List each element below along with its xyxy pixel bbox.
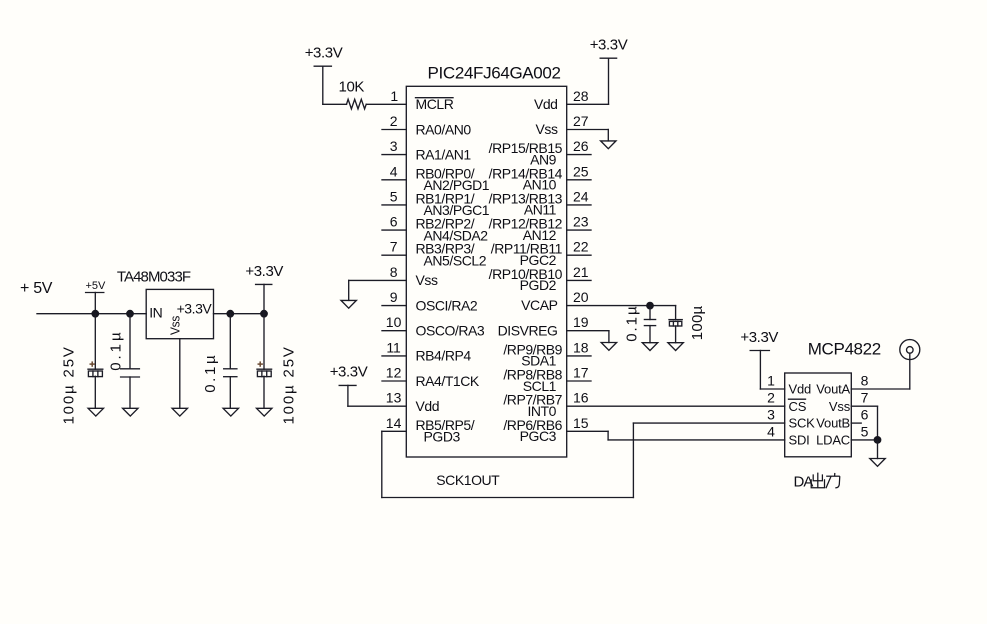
svg-text:8: 8 bbox=[861, 373, 869, 389]
value label C6 100u bbox=[689, 305, 706, 340]
svg-text:4: 4 bbox=[767, 423, 775, 439]
svg-text:RA1/AN1: RA1/AN1 bbox=[416, 146, 472, 162]
svg-text:5: 5 bbox=[390, 188, 398, 204]
wire U2 pin 27 Vss to ground bbox=[567, 130, 609, 141]
junction 5V rail / C2 bbox=[126, 310, 134, 318]
power symbol +3.3V at U2 pin 28 bbox=[590, 37, 628, 59]
value label C4 100u 25V bbox=[280, 347, 297, 424]
svg-text:TA48M033F: TA48M033F bbox=[117, 269, 191, 286]
ground C4 bbox=[257, 408, 272, 416]
svg-text:6: 6 bbox=[390, 214, 398, 230]
svg-text:4: 4 bbox=[390, 163, 398, 179]
label U2 PIC24FJ64GA002 bbox=[428, 64, 561, 83]
svg-text:18: 18 bbox=[573, 339, 589, 355]
capacitor C2 0.1u bbox=[121, 369, 140, 377]
wire U2 pin 20 VCAP bbox=[567, 305, 676, 307]
pin 13 U2 Vdd bbox=[386, 390, 439, 414]
wire U3 pin 7 Vss to pin 5 bbox=[851, 406, 877, 440]
svg-text:28: 28 bbox=[573, 88, 589, 104]
wire C2 bottom bbox=[129, 377, 131, 408]
pin 22 U2 /RP11/RB11 bbox=[491, 239, 591, 268]
wire U2 pin 13 Vdd to +3.3V bbox=[348, 385, 406, 406]
wire C6 bottom bbox=[675, 326, 677, 343]
ground U3 bbox=[870, 459, 885, 467]
pin 1 U3 Vdd bbox=[767, 373, 811, 397]
wire C5 bottom bbox=[649, 326, 651, 343]
svg-text:Vdd: Vdd bbox=[789, 382, 812, 397]
junction output rail / C4 bbox=[260, 310, 268, 318]
pin 8 U2 Vss bbox=[390, 264, 438, 288]
value label C2 0.1u bbox=[107, 332, 124, 371]
svg-text:LDAC: LDAC bbox=[816, 433, 850, 448]
svg-text:SCK: SCK bbox=[789, 416, 816, 431]
svg-text:+3.3V: +3.3V bbox=[740, 329, 778, 346]
svg-text:100µ 25V: 100µ 25V bbox=[280, 347, 297, 424]
svg-text:17: 17 bbox=[573, 365, 589, 381]
svg-text:5: 5 bbox=[861, 423, 869, 439]
pin 12 U2 RA4/T1CK bbox=[382, 365, 480, 389]
wire U2 pin 28 Vdd to +3.3V bbox=[567, 58, 609, 104]
power symbol +3.3V at R1 bbox=[305, 45, 343, 105]
pin 16 U2 /RP7/RB7 bbox=[503, 390, 588, 419]
svg-text:+3.3V: +3.3V bbox=[245, 263, 283, 280]
svg-text:100µ 25V: 100µ 25V bbox=[61, 347, 78, 424]
svg-text:7: 7 bbox=[861, 390, 869, 406]
svg-text:Vss: Vss bbox=[829, 399, 851, 414]
svg-text:11: 11 bbox=[386, 339, 401, 355]
svg-text:DISVREG: DISVREG bbox=[498, 322, 558, 338]
pin 24 U2 /RP13/RB13 bbox=[489, 188, 591, 217]
svg-text:21: 21 bbox=[573, 264, 589, 280]
wire U2 pin 15 to U3 pin 4 SDI net bbox=[567, 431, 785, 440]
wire U2 pin 14 SCK1OUT net bbox=[382, 423, 785, 497]
svg-text:OSCO/RA3: OSCO/RA3 bbox=[416, 323, 485, 339]
power symbol +3.3V at U3 pin 1 bbox=[740, 329, 778, 350]
wire U2 pin 8 Vss to ground bbox=[349, 280, 407, 300]
net label + 5V bbox=[20, 280, 53, 297]
svg-text:+3.3V: +3.3V bbox=[330, 363, 368, 380]
svg-text:VoutA: VoutA bbox=[816, 382, 850, 397]
svg-text:OSCI/RA2: OSCI/RA2 bbox=[416, 297, 478, 313]
svg-text:7: 7 bbox=[390, 239, 398, 255]
wire R1 left bbox=[323, 103, 347, 105]
svg-text:13: 13 bbox=[386, 390, 402, 406]
svg-text:12: 12 bbox=[386, 365, 402, 381]
svg-text:VoutB: VoutB bbox=[816, 416, 850, 431]
IC U2 PIC24FJ64GA002 body bbox=[406, 86, 566, 457]
svg-text:0.1µ: 0.1µ bbox=[107, 332, 124, 371]
resistor R1 10K bbox=[347, 99, 367, 109]
ground U2 pin 19 bbox=[601, 343, 616, 351]
ground C5 bbox=[642, 343, 657, 351]
svg-text:PGD3: PGD3 bbox=[424, 429, 461, 445]
svg-text:0.1µ: 0.1µ bbox=[623, 306, 640, 342]
power symbol +3.3V at U2 pin 13 bbox=[330, 363, 368, 385]
wire U3 ground stem bbox=[877, 440, 879, 459]
svg-text:PGD2: PGD2 bbox=[520, 277, 557, 293]
svg-text:IN: IN bbox=[149, 305, 162, 321]
svg-text:CS: CS bbox=[789, 399, 807, 414]
svg-text:RB4/RP4: RB4/RP4 bbox=[416, 348, 472, 364]
power symbol +3.3V at regulator output bbox=[245, 263, 283, 314]
label U1 TA48M033F bbox=[117, 269, 191, 286]
pin 7 U2 RB3/RP3/ bbox=[382, 239, 487, 269]
wire C1 bottom bbox=[94, 376, 96, 408]
pin label U1 +3.3V output bbox=[177, 301, 213, 317]
svg-text:1: 1 bbox=[767, 373, 775, 389]
svg-text:22: 22 bbox=[573, 239, 589, 255]
svg-text:DA: DA bbox=[794, 474, 814, 491]
svg-text:+ 5V: + 5V bbox=[20, 280, 53, 297]
pin 25 U2 /RP14/RB14 bbox=[489, 163, 591, 192]
value label C1 100u 25V bbox=[61, 347, 78, 424]
wire U3 pin 1 Vdd to +3.3V bbox=[760, 351, 784, 390]
pin 21 U2 /RP10/RB10 bbox=[489, 264, 591, 293]
ground U1 Vss bbox=[172, 408, 187, 416]
pin label U1 IN bbox=[149, 305, 162, 321]
pin 4 U3 SDI bbox=[767, 423, 809, 447]
wire C4 top bbox=[263, 314, 265, 370]
ground C6 bbox=[668, 343, 683, 351]
pin 6 U3 VoutB bbox=[816, 407, 868, 431]
svg-text:8: 8 bbox=[390, 264, 398, 280]
wire C4 bottom bbox=[263, 376, 265, 408]
wire 5V input rail bbox=[37, 313, 146, 315]
svg-text:VCAP: VCAP bbox=[521, 297, 557, 313]
svg-text:14: 14 bbox=[386, 415, 402, 431]
svg-text:+3.3V: +3.3V bbox=[590, 37, 628, 54]
pin 2 U2 RA0/AN0 bbox=[382, 113, 471, 137]
regulator U1 TA48M033F bbox=[146, 289, 213, 338]
svg-text:Vss: Vss bbox=[536, 121, 558, 137]
capacitor C3 0.1u bbox=[224, 369, 237, 377]
svg-text:16: 16 bbox=[573, 390, 589, 406]
net label SCK1OUT bbox=[436, 472, 500, 488]
capacitor C5 0.1u bbox=[644, 320, 655, 326]
junction 5V rail / C1 bbox=[91, 310, 99, 318]
pin 1 U2 MCLR bbox=[390, 88, 453, 112]
svg-text:24: 24 bbox=[573, 188, 589, 204]
pin 27 U2 Vss bbox=[536, 113, 589, 137]
wire C2 top bbox=[129, 314, 131, 369]
svg-text:SCK1OUT: SCK1OUT bbox=[436, 472, 500, 488]
svg-text:3: 3 bbox=[390, 138, 398, 154]
capacitor C4 100u 25V electrolytic bbox=[257, 361, 272, 376]
pin 4 U2 RB0/RP0/ bbox=[382, 163, 490, 193]
pin 3 U2 RA1/AN1 bbox=[382, 138, 471, 162]
junction VCAP / C5 bbox=[646, 302, 654, 310]
wire U3 pin 5 LDAC bbox=[851, 439, 877, 441]
ground U2 pin 8 bbox=[341, 300, 356, 308]
wire U3 pin 8 VoutA to connector bbox=[851, 353, 910, 389]
svg-text:100µ: 100µ bbox=[689, 305, 706, 340]
svg-text:MCLR: MCLR bbox=[416, 96, 454, 112]
connector J1 output jack bbox=[900, 340, 920, 360]
svg-text:10K: 10K bbox=[339, 79, 365, 96]
value label R1 10K bbox=[339, 79, 365, 96]
svg-text:+3.3V: +3.3V bbox=[305, 45, 343, 62]
svg-text:27: 27 bbox=[573, 113, 589, 129]
wire 3.3V output rail bbox=[214, 313, 265, 315]
wire C5 top bbox=[649, 306, 651, 320]
net label DA output (DA出力) bbox=[794, 473, 840, 491]
svg-text:2: 2 bbox=[390, 113, 398, 129]
pin 10 U2 OSCO/RA3 bbox=[382, 314, 485, 338]
svg-text:SDI: SDI bbox=[789, 433, 810, 448]
svg-text:PGC3: PGC3 bbox=[520, 428, 557, 444]
IC U3 MCP4822 body bbox=[785, 373, 852, 457]
pin 20 U2 VCAP bbox=[521, 289, 589, 313]
wire C3 bottom bbox=[229, 377, 231, 409]
pin 2 U3 CS bbox=[767, 390, 807, 414]
pin 28 U2 Vdd bbox=[534, 88, 589, 112]
wire R1 to pin 1 bbox=[366, 103, 406, 105]
wire U2 pin 16 to U3 pin 2 CS net bbox=[567, 405, 785, 407]
wire U1 Vss to ground bbox=[179, 339, 181, 409]
wire C6 top bbox=[675, 306, 677, 320]
pin 18 U2 /RP9/RB9 bbox=[503, 339, 591, 368]
pin 17 U2 /RP8/RB8 bbox=[503, 365, 591, 394]
svg-text:+5V: +5V bbox=[86, 280, 107, 292]
svg-text:AN5/SCL2: AN5/SCL2 bbox=[424, 253, 487, 269]
svg-text:+3.3V: +3.3V bbox=[177, 301, 213, 317]
pin 11 U2 RB4/RP4 bbox=[382, 339, 471, 363]
wire C1 top bbox=[94, 314, 96, 370]
svg-text:3: 3 bbox=[767, 407, 775, 423]
svg-text:Vss: Vss bbox=[167, 315, 182, 335]
pin 5 U3 LDAC bbox=[816, 423, 868, 447]
value label C3 0.1u bbox=[202, 355, 219, 393]
capacitor C1 100u 25V electrolytic bbox=[88, 361, 103, 376]
svg-text:2: 2 bbox=[767, 390, 775, 406]
pin 26 U2 /RP15/RB15 bbox=[489, 138, 591, 167]
power symbol +5V bbox=[86, 280, 107, 314]
ground C1 bbox=[88, 408, 103, 416]
svg-text:PIC24FJ64GA002: PIC24FJ64GA002 bbox=[428, 64, 561, 83]
svg-text:Vdd: Vdd bbox=[534, 96, 558, 112]
ground C3 bbox=[223, 408, 238, 416]
svg-text:Vss: Vss bbox=[416, 272, 438, 288]
pin 14 U2 RB5/RP5/ bbox=[386, 415, 475, 445]
pin 8 U3 VoutA bbox=[816, 373, 868, 397]
svg-text:15: 15 bbox=[573, 415, 589, 431]
junction U3 Vss/LDAC bbox=[874, 436, 882, 444]
svg-text:23: 23 bbox=[573, 214, 589, 230]
svg-text:0.1µ: 0.1µ bbox=[202, 355, 219, 393]
svg-text:MCP4822: MCP4822 bbox=[808, 339, 881, 358]
pin 9 U2 OSCI/RA2 bbox=[382, 289, 478, 313]
svg-text:26: 26 bbox=[573, 138, 589, 154]
pin 15 U2 /RP6/RB6 bbox=[503, 415, 588, 444]
pin label U1 Vss bbox=[167, 315, 182, 335]
svg-text:9: 9 bbox=[390, 289, 398, 305]
svg-text:RA4/T1CK: RA4/T1CK bbox=[416, 373, 480, 389]
label U3 MCP4822 bbox=[808, 339, 881, 358]
pin 23 U2 /RP12/RB12 bbox=[489, 214, 591, 243]
junction output rail / C3 bbox=[226, 310, 234, 318]
svg-text:1: 1 bbox=[390, 88, 398, 104]
pin 19 U2 DISVREG bbox=[498, 314, 589, 338]
value label C5 0.1u bbox=[623, 306, 640, 342]
ground U2 pin 27 bbox=[601, 141, 616, 149]
svg-text:10: 10 bbox=[386, 314, 402, 330]
wire U2 pin 19 DISVREG to ground bbox=[567, 331, 609, 343]
svg-text:25: 25 bbox=[573, 163, 589, 179]
svg-text:20: 20 bbox=[573, 289, 589, 305]
pin 5 U2 RB1/RP1/ bbox=[382, 188, 490, 218]
svg-text:19: 19 bbox=[573, 314, 589, 330]
svg-text:Vdd: Vdd bbox=[416, 398, 440, 414]
svg-text:RA0/AN0: RA0/AN0 bbox=[416, 121, 472, 137]
svg-text:6: 6 bbox=[861, 407, 869, 423]
wire C3 top bbox=[229, 314, 231, 369]
capacitor C6 100u electrolytic bbox=[669, 320, 682, 326]
pin 3 U3 SCK bbox=[767, 407, 815, 431]
pin 7 U3 Vss bbox=[829, 390, 869, 414]
ground C2 bbox=[123, 408, 138, 416]
pin 6 U2 RB2/RP2/ bbox=[382, 214, 488, 244]
